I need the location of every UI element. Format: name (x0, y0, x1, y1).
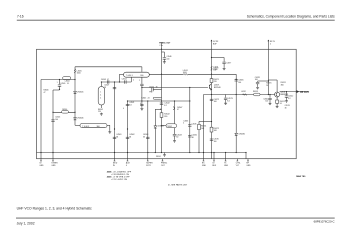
wire vertical x199 (198, 122, 200, 153)
resonator T4301 (124, 72, 150, 77)
svg-text:4: 4 (100, 98, 101, 100)
resistor R4516 (62, 111, 69, 114)
wire (225, 95, 227, 98)
pin 11 (247, 159, 249, 161)
svg-text:2: 2 (139, 80, 140, 82)
pin 8 (213, 159, 215, 161)
capacitor C4511 (268, 98, 271, 99)
wire (174, 136, 176, 140)
wire vertical x211.5 (211, 49, 213, 158)
junction (59, 89, 60, 90)
pin 5 (147, 159, 149, 161)
junction (189, 87, 190, 88)
junction (211, 57, 212, 58)
pin 1 (40, 159, 42, 161)
ground (100, 113, 103, 116)
resistor R4571 (210, 79, 213, 83)
svg-text:C 4x: C 4x (159, 45, 163, 47)
junction (211, 121, 212, 122)
junction (160, 109, 161, 110)
wire (141, 77, 143, 84)
wire RF out (280, 91, 308, 93)
wire y101 (128, 100, 190, 102)
wire branch (258, 80, 269, 82)
svg-text:CR4506: CR4506 (77, 118, 84, 120)
wire (141, 101, 143, 107)
pin 6 (162, 159, 164, 161)
junction (127, 100, 128, 101)
wire (286, 92, 288, 96)
svg-text:24: 24 (148, 97, 150, 99)
varactor CR4581 (235, 133, 238, 135)
svg-text:RF OUT: RF OUT (300, 91, 309, 94)
wire vertical x41 (40, 80, 42, 159)
wire y87.5 (142, 87, 190, 89)
junction at frame top (161, 49, 162, 50)
junction (119, 81, 120, 82)
svg-text:47: 47 (44, 92, 46, 94)
resistor R4512 (276, 100, 279, 103)
svg-text:360: 360 (281, 85, 284, 87)
wire (223, 58, 225, 62)
svg-text:8.2: 8.2 (129, 104, 131, 106)
svg-text:100: 100 (55, 119, 58, 121)
resonator T4303 (80, 123, 107, 127)
svg-text:C4533: C4533 (183, 120, 188, 122)
ground (285, 100, 288, 103)
wire T4301 to L4541 (149, 73, 183, 75)
pin 3 (114, 159, 116, 161)
svg-text:4 L SEE PARTS LIST: 4 L SEE PARTS LIST (168, 183, 188, 186)
junction (286, 91, 287, 92)
svg-text:100: 100 (213, 70, 216, 72)
junction (74, 79, 75, 80)
wire y121.5 (199, 121, 212, 123)
wire (163, 59, 165, 60)
capacitor C4509 (140, 84, 143, 85)
junction (268, 80, 269, 81)
wire vertical x147.8 (147, 101, 149, 159)
svg-text:4.7: 4.7 (107, 79, 109, 81)
svg-text:4: 4 (140, 103, 141, 105)
svg-text:Schematics, Component Location: Schematics, Component Location Diagrams,… (247, 14, 335, 18)
svg-text:C4504: C4504 (122, 79, 127, 81)
svg-text:C4577: C4577 (226, 62, 231, 64)
svg-text:CR4505: CR4505 (77, 91, 84, 93)
junction (161, 152, 162, 153)
junction (147, 100, 148, 101)
resistor R4531 (198, 124, 201, 129)
svg-text:VLT: VLT (236, 165, 240, 167)
wire (257, 84, 259, 86)
svg-text:10K: 10K (214, 130, 218, 132)
svg-text:4009: +V 7B VF/B 2 OFF: 4009: +V 7B VF/B 2 OFF (107, 176, 131, 179)
ground (223, 67, 226, 70)
junction (245, 152, 246, 153)
junction (268, 94, 269, 95)
capacitor C4521 (126, 104, 129, 105)
wire collector (276, 80, 278, 92)
svg-text:1000: 1000 (77, 73, 81, 75)
svg-text:1K: 1K (266, 85, 269, 87)
capacitor C4522 (140, 104, 143, 105)
svg-text:100: 100 (214, 101, 217, 103)
capacitor C4507 (113, 87, 116, 88)
wire drop to L4301 (141, 67, 143, 72)
svg-text:PRE: PRE (149, 91, 152, 93)
capacitor C4581 (235, 80, 238, 81)
pin 4 (127, 159, 129, 161)
svg-text:100: 100 (167, 58, 170, 60)
svg-text:33: 33 (143, 137, 145, 139)
wire (107, 124, 110, 126)
svg-text:100: 100 (255, 79, 258, 81)
inductor L4592 (243, 94, 247, 96)
wire vertical x161.5 (161, 42, 163, 152)
junction (141, 87, 142, 88)
junction (114, 128, 115, 129)
junction (161, 100, 162, 101)
wire vertical x114.5 (114, 82, 116, 159)
ground (173, 139, 176, 142)
junction (211, 94, 212, 95)
svg-text:4: 4 (100, 95, 101, 97)
capacitor C4512 (285, 96, 288, 97)
svg-text:GND: GND (246, 165, 251, 167)
svg-text:T4302: T4302 (167, 126, 172, 128)
wire (276, 103, 278, 105)
svg-text:220: 220 (214, 81, 217, 83)
capacitor (188, 125, 191, 126)
resistor R4593 (254, 93, 260, 96)
svg-text:39: 39 (104, 87, 106, 89)
capacitor C4563 (146, 137, 149, 138)
ground (163, 61, 166, 64)
wire vertical x155.3 (154, 109, 156, 152)
wire pin drop (213, 153, 215, 159)
svg-text:8.2: 8.2 (164, 105, 167, 107)
junction (236, 94, 237, 95)
junction (161, 74, 162, 75)
junction (174, 100, 175, 101)
wire (164, 153, 166, 154)
wire base feed (190, 87, 208, 89)
inductor L4571 (211, 66, 213, 70)
diode CR4505 (74, 91, 77, 93)
capacitor C4561 (113, 137, 116, 138)
svg-text:R4541: R4541 (156, 156, 161, 158)
svg-text:L4592: L4592 (241, 91, 246, 93)
junction (114, 81, 115, 82)
transistor Q4511 (275, 92, 280, 97)
svg-text:GND: GND (39, 165, 44, 167)
wire (225, 100, 227, 102)
svg-text:10K: 10K (201, 128, 205, 130)
junction (127, 152, 128, 153)
svg-text:330: 330 (164, 116, 167, 118)
junction (198, 152, 199, 153)
svg-text:C4545: C4545 (141, 97, 146, 99)
capacitor C4572 (210, 99, 213, 100)
junction (114, 152, 115, 153)
pin 10 (236, 159, 238, 161)
capacitor C4562 (126, 137, 129, 138)
svg-text:MAE 780: MAE 780 (296, 175, 306, 178)
wire L4541 to x211.5 (188, 73, 212, 75)
svg-text:4008: +V L1 B0/F/B 1 OFF: 4008: +V L1 B0/F/B 1 OFF (107, 170, 132, 173)
svg-text:68P81076C20-C: 68P81076C20-C (314, 220, 335, 224)
wire vertical x75 (74, 67, 76, 126)
junction (211, 152, 212, 153)
diode CR4532 (154, 126, 157, 128)
svg-text:9.1: 9.1 (67, 83, 69, 85)
RF OUT arrow (297, 90, 300, 93)
svg-text:+V 5V +F/B 2 ON: +V 5V +F/B 2 ON (111, 179, 127, 181)
svg-text:33: 33 (116, 137, 118, 139)
capacitor C4531 (188, 136, 191, 137)
wire tank line down (141, 86, 143, 101)
svg-text:2: 2 (270, 44, 271, 46)
pin 9 (225, 159, 227, 161)
svg-text:100: 100 (214, 141, 217, 143)
svg-text:1000: 1000 (183, 72, 187, 74)
svg-text:GND: GND (51, 165, 56, 167)
svg-text:8.2: 8.2 (288, 98, 290, 100)
junction (269, 94, 270, 95)
wire branch (155, 108, 161, 110)
svg-text:C4505: C4505 (60, 83, 65, 85)
wire (100, 105, 102, 108)
junction (52, 152, 53, 153)
resonator L4543 (153, 97, 162, 99)
wire branch C4546 (162, 51, 165, 53)
wire y82 (101, 81, 131, 83)
pin 2 (52, 159, 54, 161)
wire vertical x236.2 (235, 74, 237, 152)
svg-text:8.2: 8.2 (227, 100, 230, 102)
wire (174, 128, 176, 134)
resistor R4572 (210, 127, 213, 132)
capacitor C4543 (173, 135, 176, 136)
TP stub (211, 40, 213, 49)
svg-text:FLTR: FLTR (146, 165, 151, 167)
wire to T4303 (75, 124, 80, 126)
wire 5V branch (212, 57, 225, 59)
wire stub R4516 (53, 111, 75, 113)
ground (140, 107, 143, 110)
svg-text:July 1, 2002: July 1, 2002 (17, 221, 35, 225)
svg-text:R4516: R4516 (62, 109, 67, 111)
svg-text:UHF VCO Ranges 1, 2, 3, and 4: UHF VCO Ranges 1, 2, 3, and 4 Hybrid Sch… (17, 207, 92, 211)
capacitor C4503 (108, 80, 109, 83)
wire (119, 74, 121, 82)
capacitor C4505 (58, 85, 61, 86)
junction (52, 112, 53, 113)
wire (223, 64, 225, 68)
wire vertical x53 (52, 90, 54, 159)
inductor L4541 (184, 74, 188, 76)
svg-text:BUF: BUF (213, 44, 218, 46)
wire vertical x189.8 (189, 88, 191, 153)
wire (100, 82, 102, 87)
svg-text:56: 56 (280, 103, 282, 105)
junction (127, 128, 128, 129)
svg-text:220: 220 (98, 111, 101, 113)
capacitor C4516 (51, 120, 54, 121)
resonator Y4501 (98, 87, 104, 106)
wire (269, 100, 271, 102)
junction (189, 152, 190, 153)
svg-text:C4535: C4535 (192, 124, 197, 126)
junction (236, 79, 237, 80)
svg-text:BFR540: BFR540 (214, 87, 221, 89)
ground (108, 131, 111, 134)
wire jog (53, 89, 60, 91)
wire y94.5 output (204, 94, 276, 96)
wire (59, 86, 61, 90)
junction (40, 152, 41, 153)
capacitor C4544 (152, 88, 153, 91)
footer rule (16, 217, 335, 219)
svg-text:300: 300 (140, 75, 143, 77)
svg-text:T 4-30 1: T 4-30 1 (126, 75, 133, 77)
svg-text:OUT: OUT (161, 165, 166, 167)
wire cap drop (59, 80, 61, 85)
resistor R4542 (160, 113, 163, 118)
wire (109, 125, 111, 130)
inductor L4505 (74, 69, 76, 73)
svg-text:T 4-30 3: T 4-30 3 (82, 126, 89, 128)
resonator T4302 (166, 124, 177, 128)
wire (268, 79, 277, 81)
capacitor C4546 (163, 58, 166, 59)
svg-text:BUF: BUF (212, 165, 217, 167)
svg-text:GND: GND (224, 165, 229, 167)
wire left horizontal (41, 79, 75, 81)
diode CR4506 (74, 118, 77, 120)
junction (101, 81, 102, 82)
wire (257, 80, 259, 83)
wire (153, 89, 161, 91)
wire vertical x203.5 (203, 95, 205, 159)
junction (203, 152, 204, 153)
capacitor C4591 (256, 82, 259, 83)
transistor Q4542 (173, 107, 174, 110)
svg-text:300: 300 (97, 126, 100, 128)
svg-text:1: 1 (100, 92, 101, 94)
svg-text:30: 30 (176, 137, 178, 139)
junction (59, 79, 60, 80)
svg-text:R4593: R4593 (253, 91, 258, 93)
wire drop (225, 153, 227, 159)
capacitor C4577 (222, 62, 225, 63)
svg-text:1: 1 (57, 82, 58, 84)
wire (269, 95, 271, 98)
svg-text:GND: GND (202, 165, 207, 167)
svg-text:30: 30 (192, 137, 194, 139)
junction (189, 100, 190, 101)
ground (163, 154, 166, 157)
junction (211, 74, 212, 75)
junction (155, 152, 156, 153)
wire (286, 97, 288, 99)
wire (163, 52, 165, 57)
junction (236, 152, 237, 153)
svg-text:30: 30 (285, 107, 287, 109)
capacitor C4504 (125, 80, 126, 83)
pin 7 (203, 159, 205, 161)
wire bottom y152.5 (37, 152, 247, 154)
junction (141, 100, 142, 101)
svg-text:4: 4 (123, 108, 124, 110)
wire drop (245, 153, 247, 159)
resistor R4504 (63, 77, 71, 80)
header rule (17, 19, 335, 21)
wire to T4302 (162, 125, 167, 127)
junction (74, 112, 75, 113)
svg-text:7-16: 7-16 (17, 14, 24, 18)
capacitor C4542 (160, 103, 163, 104)
junction (225, 152, 226, 153)
svg-text:33: 33 (129, 137, 131, 139)
svg-text:47: 47 (177, 109, 179, 111)
svg-text:IN: IN (113, 165, 116, 167)
wire vertical x268.4 (267, 49, 269, 94)
junction (161, 125, 162, 126)
wire vertical x127.5 (127, 101, 129, 159)
wire y74 to corner (212, 73, 237, 75)
wire top horizontal (75, 66, 142, 68)
wire up to T4301 pin (130, 77, 132, 82)
ground (269, 102, 272, 105)
ground (224, 102, 227, 105)
junction (213, 152, 214, 153)
schematic frame (37, 49, 297, 158)
svg-text:4: 4 (133, 80, 134, 82)
svg-text:4: 4 (126, 165, 127, 167)
svg-text:30: 30 (156, 87, 158, 89)
TP stub (267, 40, 269, 49)
junction (147, 152, 148, 153)
capacitor C4573 (224, 98, 227, 99)
svg-text:100: 100 (265, 101, 268, 103)
transistor Q4571 (209, 84, 211, 90)
capacitor C4576 (210, 139, 213, 140)
svg-text:4: 4 (183, 123, 184, 125)
svg-text:CR4581: CR4581 (238, 133, 245, 135)
ground (256, 86, 259, 89)
svg-text:100: 100 (238, 82, 241, 84)
wire vertical x174.5 (174, 101, 176, 124)
wire emitter (276, 97, 278, 100)
wire T4301 left pin (120, 73, 124, 75)
ground (276, 105, 279, 108)
svg-text:C4503: C4503 (101, 79, 106, 81)
